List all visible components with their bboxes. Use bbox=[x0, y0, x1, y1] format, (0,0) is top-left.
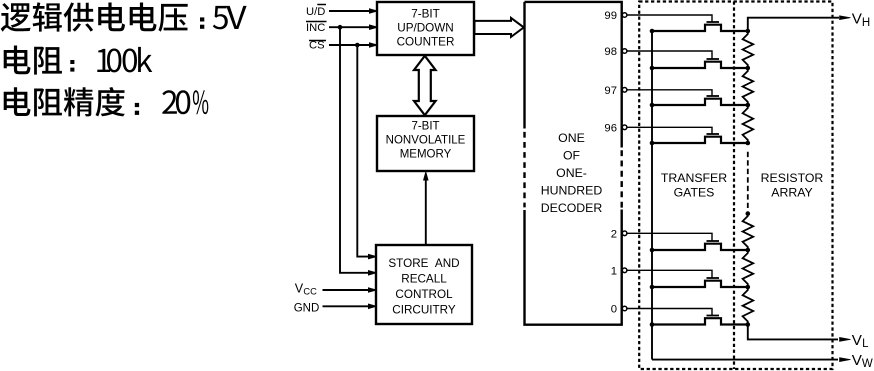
svg-text:ONE-: ONE- bbox=[556, 166, 587, 180]
wire VCC to store bbox=[323, 288, 378, 293]
svg-text:CIRCUITRY: CIRCUITRY bbox=[392, 304, 456, 317]
wire INC branch to store bbox=[340, 27, 377, 275]
transistor Q96 gate bbox=[707, 133, 720, 135]
node INC branch bbox=[338, 25, 343, 30]
wire decoder pin 96 to gate bbox=[627, 127, 712, 134]
svg-text:UP/DOWN: UP/DOWN bbox=[397, 22, 454, 35]
transistor Q2 channel bbox=[652, 244, 748, 250]
svg-text:L: L bbox=[862, 338, 869, 350]
node bus 1 bbox=[650, 285, 655, 290]
wire VH stub bbox=[748, 18, 839, 31]
node bus 98 bbox=[650, 66, 655, 71]
svg-text:TRANSFER: TRANSFER bbox=[661, 171, 727, 185]
svg-text:U/D: U/D bbox=[306, 6, 325, 18]
terminal label VL bbox=[852, 332, 869, 350]
svg-text:V: V bbox=[852, 332, 863, 349]
resistor R99-98 bbox=[743, 31, 754, 68]
svg-text:GATES: GATES bbox=[674, 185, 715, 199]
svg-text:OF: OF bbox=[563, 149, 581, 163]
wire decoder pin 98 to gate bbox=[627, 51, 712, 59]
pin circle 97 bbox=[622, 88, 627, 93]
pin circle 0 bbox=[622, 306, 627, 311]
node bus 96 bbox=[650, 141, 655, 146]
text line 电阻：100k bbox=[4, 46, 153, 75]
text line 电阻精度：20% bbox=[4, 87, 209, 116]
transistor Q0 gate bbox=[707, 315, 720, 317]
wire decoder pin 0 to gate bbox=[627, 309, 712, 316]
svg-text:MEMORY: MEMORY bbox=[400, 149, 452, 161]
resistor R98-97 bbox=[743, 68, 754, 105]
pin circle 99 bbox=[622, 13, 627, 18]
svg-text:7-BIT: 7-BIT bbox=[411, 8, 440, 21]
svg-text:W: W bbox=[862, 358, 873, 370]
transistor Q0 channel bbox=[652, 318, 748, 324]
svg-text:RESISTOR: RESISTOR bbox=[761, 171, 824, 185]
node bus 97 bbox=[650, 103, 655, 108]
transistor Q1 channel bbox=[652, 281, 748, 287]
terminal label VW bbox=[852, 352, 873, 370]
input label CS bbox=[309, 40, 326, 52]
node tap 97 bbox=[746, 103, 751, 108]
resistor R1-0 bbox=[743, 287, 754, 325]
transistor Q99 gate bbox=[707, 21, 720, 23]
node bus 2 bbox=[650, 248, 655, 253]
wire CS to counter bbox=[329, 43, 378, 48]
terminal label VH bbox=[852, 11, 871, 29]
svg-text:ONE: ONE bbox=[558, 131, 585, 145]
block U1 7-BIT UP/DOWN COUNTER bbox=[377, 2, 474, 55]
svg-text:STORE AND: STORE AND bbox=[388, 257, 459, 270]
wire decoder pin 1 to gate bbox=[627, 270, 712, 278]
arrow VW bbox=[840, 358, 851, 362]
svg-text:1: 1 bbox=[611, 265, 617, 277]
node bus 0 bbox=[650, 322, 655, 327]
ground label GND bbox=[294, 302, 320, 314]
svg-text:RECALL: RECALL bbox=[401, 273, 447, 286]
svg-text:CS: CS bbox=[309, 40, 325, 52]
arrow VH bbox=[840, 16, 851, 20]
svg-text:97: 97 bbox=[604, 85, 617, 97]
wire store to memory bbox=[423, 172, 428, 246]
svg-text:7-BIT: 7-BIT bbox=[411, 121, 439, 133]
resistor Rx-2 bbox=[743, 213, 754, 250]
transistor Q97 channel bbox=[652, 99, 748, 105]
svg-text:DECODER: DECODER bbox=[541, 201, 603, 215]
node bus 99 bbox=[650, 29, 655, 34]
node tap 0 bbox=[746, 322, 751, 327]
bidirectional arrow counter-memory bbox=[414, 56, 436, 115]
node CS branch bbox=[355, 43, 360, 48]
label RESISTOR ARRAY bbox=[761, 171, 824, 200]
svg-text:HUNDRED: HUNDRED bbox=[541, 184, 603, 198]
node chain restart bbox=[746, 211, 751, 216]
pin circle 96 bbox=[622, 125, 627, 130]
svg-text:V: V bbox=[295, 281, 304, 295]
input label U/D bbox=[306, 5, 326, 19]
svg-text:COUNTER: COUNTER bbox=[397, 36, 455, 49]
resistor R97-96 bbox=[743, 105, 754, 143]
svg-text:2: 2 bbox=[611, 228, 617, 240]
input label INC bbox=[306, 22, 327, 35]
svg-text:99: 99 bbox=[604, 10, 617, 22]
svg-text:ARRAY: ARRAY bbox=[771, 185, 812, 199]
svg-text:GND: GND bbox=[294, 302, 320, 314]
block U3 STORE AND RECALL CONTROL CIRCUITRY bbox=[376, 245, 472, 324]
transistor Q99 channel bbox=[652, 25, 748, 31]
node tap 96 bbox=[746, 141, 751, 146]
transistor Q98 channel bbox=[652, 62, 748, 68]
svg-text:0: 0 bbox=[611, 304, 617, 316]
transistor Q97 gate bbox=[707, 95, 720, 97]
svg-text:H: H bbox=[862, 17, 870, 29]
node tap 99 bbox=[746, 29, 751, 34]
wire VL bbox=[748, 325, 838, 340]
transistor Q98 gate bbox=[707, 58, 720, 60]
dashed divider transfer gates | resistor array bbox=[733, 2, 735, 370]
svg-text:INC: INC bbox=[306, 22, 325, 34]
pin circle 2 bbox=[622, 231, 627, 236]
wire VW bbox=[652, 359, 838, 361]
text line 逻辑供电电压：5V bbox=[1, 2, 247, 31]
pin circle 1 bbox=[622, 268, 627, 273]
block U4 ONE OF ONE-HUNDRED DECODER bbox=[525, 2, 622, 325]
node tap 1 bbox=[746, 285, 751, 290]
svg-text:98: 98 bbox=[604, 46, 617, 58]
transistor Q1 gate bbox=[707, 277, 720, 279]
node tap 2 bbox=[746, 248, 751, 253]
transistor Q96 channel bbox=[652, 137, 748, 143]
pin circle 98 bbox=[622, 49, 627, 54]
svg-text:CC: CC bbox=[303, 286, 317, 296]
svg-text:CONTROL: CONTROL bbox=[395, 288, 453, 301]
svg-text:96: 96 bbox=[604, 122, 617, 134]
node tap 98 bbox=[746, 66, 751, 71]
wire INC to counter bbox=[329, 25, 378, 30]
wire U/D to counter bbox=[329, 9, 378, 14]
wire decoder pin 2 to gate bbox=[627, 233, 712, 241]
svg-text:NONVOLATILE: NONVOLATILE bbox=[386, 135, 466, 147]
wire wiper bus bbox=[651, 31, 653, 360]
wire CS branch to store bbox=[357, 45, 377, 259]
wire GND to store bbox=[323, 304, 378, 309]
resistor R2-1 bbox=[743, 250, 754, 287]
wire decoder pin 99 to gate bbox=[627, 15, 712, 22]
wire resistor chain break (dashed) bbox=[747, 152, 749, 208]
wire decoder pin 97 to gate bbox=[627, 90, 712, 96]
label TRANSFER GATES bbox=[661, 171, 727, 200]
transistor Q2 gate bbox=[707, 240, 720, 242]
power label VCC bbox=[295, 281, 317, 296]
bus arrow counter to decoder bbox=[475, 18, 524, 37]
arrow VL bbox=[840, 337, 851, 341]
block U2 7-BIT NONVOLATILE MEMORY bbox=[377, 116, 474, 171]
dashed box transfer gates / resistor array bbox=[639, 2, 832, 370]
